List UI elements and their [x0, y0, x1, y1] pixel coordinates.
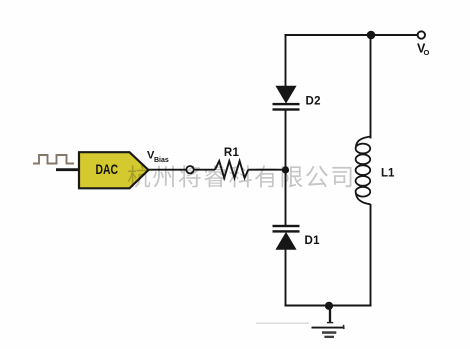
ground	[256, 306, 344, 338]
svg-text:O: O	[424, 48, 430, 57]
svg-text:D1: D1	[305, 235, 321, 247]
wire top horizontal	[285, 34, 418, 36]
junction node top	[367, 31, 376, 40]
svg-text:DAC: DAC	[96, 161, 119, 177]
svg-text:Bias: Bias	[154, 157, 169, 164]
square wave input signal	[33, 155, 74, 164]
wire left vertical upper (top wire to D2 anode)	[285, 34, 287, 87]
junction node mid	[282, 166, 289, 173]
inductor L1	[356, 137, 371, 205]
varactor diode D1	[273, 225, 300, 249]
svg-text:R1: R1	[224, 147, 240, 159]
svg-text:L1: L1	[381, 168, 395, 180]
wire right vertical upper (top junction to L1)	[370, 35, 372, 139]
wire input to DAC	[56, 168, 79, 171]
varactor diode D2	[273, 86, 300, 110]
open node circle	[186, 166, 193, 173]
wire D1 anode down to bottom wire	[285, 249, 287, 306]
wire bottom horizontal	[285, 305, 372, 307]
node Vo terminal circle	[418, 31, 425, 38]
wire D2 cathode to mid junction to D1	[285, 111, 287, 226]
DAC U1	[79, 152, 148, 188]
wire DAC tip to open node	[149, 169, 187, 171]
svg-text:D2: D2	[306, 96, 321, 108]
wire right vertical lower (L1 to bottom wire)	[370, 204, 372, 306]
watermark 杭州将睿科有限公司	[128, 165, 352, 188]
junction node bottom (ground tap)	[325, 302, 333, 310]
wire node to R1	[194, 169, 215, 171]
resistor R1	[215, 161, 248, 178]
wire R1 to mid junction	[248, 169, 285, 171]
